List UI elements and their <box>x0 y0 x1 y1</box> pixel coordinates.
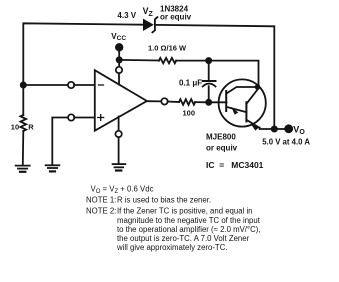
wire resistor 100 to node <box>195 101 209 103</box>
transistor Q1 MJE800 circle <box>219 79 266 126</box>
pin circle op-amp output <box>161 98 167 104</box>
transistor Q1 emitter 1 with arrow <box>227 107 247 115</box>
transistor Q1 base bar 1 <box>225 91 227 111</box>
wire cap node to collector feed corner <box>209 61 259 87</box>
wire op-amp bottom pin <box>118 117 120 131</box>
resistor 100 <box>179 99 195 105</box>
svg-text:R: R <box>28 123 34 132</box>
zener diode VZ 1N3824 <box>144 17 158 32</box>
svg-text:or equiv: or equiv <box>160 13 192 22</box>
svg-text:NOTE 2:: NOTE 2: <box>86 207 116 216</box>
node: collector junction <box>256 85 260 89</box>
svg-text:VO = VZ + 0.6 Vdc: VO = VZ + 0.6 Vdc <box>91 185 154 196</box>
wire capacitor to base node <box>208 86 210 102</box>
ground (op-amp) <box>113 164 126 170</box>
svg-text:MJE800: MJE800 <box>206 133 236 142</box>
wire VCC junction to op-amp top pin <box>118 60 120 67</box>
wire output junction to terminal <box>275 128 289 130</box>
transistor Q1 collector 1 diagonal <box>227 87 259 93</box>
pin circle op-amp ground pin <box>115 131 121 137</box>
op-amp minus sign <box>99 84 104 86</box>
node: junction of top-left rail and inverting input <box>21 82 26 87</box>
pin circle non-inverting input <box>68 114 74 120</box>
wire non-inverting input feed with corner <box>52 118 68 165</box>
svg-text:IC = MC3401: IC = MC3401 <box>206 160 264 170</box>
node: base node junction <box>206 100 211 105</box>
VCC terminal dot <box>116 44 123 51</box>
pin circle op-amp VCC pin <box>116 67 122 73</box>
resistor R (10) vertical <box>20 115 26 131</box>
wire op-amp ground pin down <box>118 137 120 163</box>
wire op-amp top pin into triangle <box>118 73 120 84</box>
svg-text:5.0 V at 4.0 A: 5.0 V at 4.0 A <box>262 137 310 146</box>
node: cap top junction <box>206 58 211 63</box>
transistor Q1 collector 2 diagonal <box>246 88 258 104</box>
wire VCC rail to resistor 1 ohm <box>119 59 159 62</box>
svg-text:VO: VO <box>293 125 305 136</box>
svg-text:or equiv: or equiv <box>206 144 238 153</box>
resistor 1.0 ohm / 16 W <box>159 58 176 63</box>
wire top right from zener cathode to right corner, down to output node <box>156 25 274 129</box>
svg-text:4.3 V: 4.3 V <box>117 11 136 20</box>
node: output junction <box>272 126 277 131</box>
wire cap node down to capacitor <box>208 61 210 80</box>
wire resistor to ground <box>22 131 25 165</box>
wire output to resistor 100 <box>168 101 179 104</box>
wire VCC down to rail junction <box>118 47 120 60</box>
wire op-amp output <box>147 100 162 102</box>
ground (non-inverting input) <box>46 165 60 171</box>
wire non-inverting input to op-amp <box>74 117 94 119</box>
pin circle inverting input <box>68 82 74 88</box>
wire inverting input to op-amp <box>74 84 95 86</box>
op-amp plus sign <box>98 115 104 121</box>
wire top horizontal from left corner to zener anode <box>23 23 142 115</box>
svg-text:If the Zener TC is positive, a: If the Zener TC is positive, and equal i… <box>117 207 253 216</box>
svg-text:the output is zero-TC. A 7.0: the output is zero-TC. A 7.0 Volt Zener <box>117 234 250 243</box>
transistor Q1 emitter 2 with arrow <box>246 120 259 131</box>
transistor Q1 base bar 2 <box>245 102 247 121</box>
svg-text:VCC: VCC <box>111 32 126 42</box>
svg-text:NOTE 1:: NOTE 1: <box>86 196 116 205</box>
svg-text:1.0 Ω/16 W: 1.0 Ω/16 W <box>148 44 187 53</box>
wire inverting input feed <box>23 84 68 86</box>
svg-text:magnitude to the negative TC o: magnitude to the negative TC of the inpu… <box>117 216 261 225</box>
svg-text:will give approximately zero-T: will give approximately zero-TC. <box>116 243 228 252</box>
terminal dot VO <box>285 125 292 132</box>
wire resistor to cap node <box>176 60 209 62</box>
svg-text:100: 100 <box>183 108 196 117</box>
wire base node to transistor base <box>209 101 227 103</box>
svg-text:to the operational amplifier (: to the operational amplifier (≈ 2.0 mV/°… <box>117 225 260 234</box>
op-amp U1 triangle <box>95 70 147 131</box>
svg-text:VZ: VZ <box>143 6 154 18</box>
wire emitter to output line <box>260 128 275 129</box>
svg-text:R is used to bias the zener.: R is used to bias the zener. <box>117 196 211 205</box>
ground (below R) <box>16 166 30 172</box>
svg-text:0.1 μF: 0.1 μF <box>179 78 202 87</box>
capacitor C 0.1uF <box>203 81 216 87</box>
node: VCC rail junction <box>117 57 122 62</box>
svg-text:10: 10 <box>11 123 19 132</box>
